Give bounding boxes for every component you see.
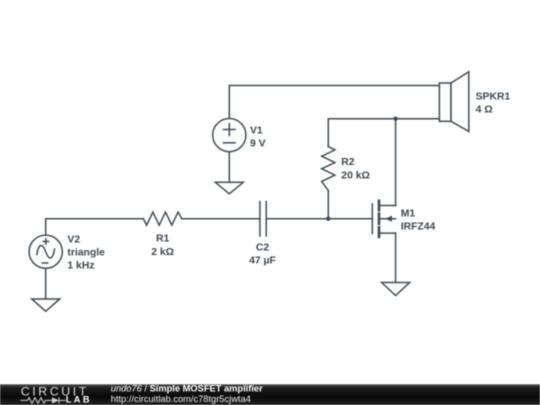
wire R1 to C2 bbox=[182, 218, 260, 220]
svg-text:V2: V2 bbox=[67, 234, 80, 245]
svg-text:20 kΩ: 20 kΩ bbox=[341, 170, 370, 181]
svg-text:2 kΩ: 2 kΩ bbox=[151, 247, 174, 258]
svg-text:R1: R1 bbox=[156, 234, 170, 245]
svg-text:http://circuitlab.com/c78tgr5c: http://circuitlab.com/c78tgr5cjwta4 bbox=[111, 394, 251, 404]
svg-text:1 kHz: 1 kHz bbox=[67, 261, 94, 272]
wire V1 to ground bbox=[228, 152, 230, 183]
speaker SPKR1 bbox=[439, 83, 451, 121]
svg-text:IRFZ44: IRFZ44 bbox=[401, 222, 436, 233]
svg-text:47 µF: 47 µF bbox=[249, 255, 276, 266]
svg-text:C2: C2 bbox=[256, 242, 270, 253]
svg-text:LAB: LAB bbox=[66, 395, 92, 405]
voltage source V2 bbox=[29, 235, 62, 268]
svg-text:undo76 / Simple MOSFET amplifi: undo76 / Simple MOSFET amplifier bbox=[111, 384, 263, 394]
wire V2 to R1 bbox=[46, 219, 144, 236]
node junction R2/gate bbox=[326, 217, 330, 221]
svg-text:M1: M1 bbox=[401, 208, 416, 219]
resistor R2 bbox=[322, 147, 335, 191]
svg-text:4 Ω: 4 Ω bbox=[476, 104, 493, 115]
node junction drain rail bbox=[393, 117, 397, 121]
svg-text:V1: V1 bbox=[250, 125, 263, 136]
resistor R1 bbox=[143, 212, 182, 225]
wire drain rail R2 top to speaker bbox=[328, 119, 439, 147]
wire top rail V1 to speaker bbox=[229, 86, 439, 119]
svg-text:R2: R2 bbox=[341, 157, 355, 168]
transistor M1 bbox=[371, 204, 373, 234]
wire C2 to gate bbox=[266, 218, 372, 220]
svg-text:triangle: triangle bbox=[67, 248, 105, 259]
wire drain vertical bbox=[395, 119, 397, 206]
svg-text:SPKR1: SPKR1 bbox=[476, 91, 511, 102]
capacitor C2 bbox=[259, 202, 261, 237]
ground under V1 bbox=[215, 182, 243, 194]
wire V2 to ground bbox=[45, 268, 47, 299]
ground under M1 bbox=[382, 283, 410, 296]
voltage source V1 bbox=[213, 119, 246, 152]
wire source to ground bbox=[395, 233, 397, 282]
ground under V2 bbox=[32, 299, 60, 311]
logo squiggle resistor and diode bbox=[21, 397, 66, 403]
wire R2 bottom bbox=[327, 191, 329, 219]
svg-text:9 V: 9 V bbox=[250, 139, 266, 150]
